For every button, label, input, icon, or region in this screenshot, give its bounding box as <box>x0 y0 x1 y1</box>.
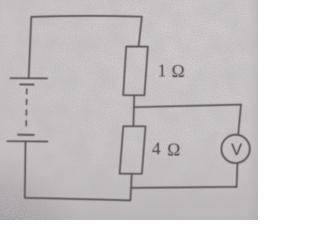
photo grain overlay <box>0 0 1 1</box>
wire: battery negative lead (left vertical, bottom) <box>24 142 27 198</box>
wire: bottom horizontal return to battery <box>25 198 131 201</box>
label: R1 value 1 ohm <box>158 61 185 82</box>
battery B1: bottom cell long plate (+) <box>7 140 47 142</box>
wire: battery positive lead (left vertical, top) <box>29 17 32 78</box>
wire: top horizontal from battery to R1 branch <box>31 16 142 17</box>
resistor R1 (1 ohm) box <box>123 47 148 96</box>
wire: R1 bottom to R2 top <box>132 95 135 126</box>
wire: R2 bottom lead down to bottom node <box>130 174 131 201</box>
battery B1: top cell long plate (+) <box>10 77 47 79</box>
wire: voltmeter bottom horizontal branch <box>132 187 237 188</box>
photo grain underlay <box>0 0 258 220</box>
resistor R2 (4 ohm) box <box>120 126 146 174</box>
wire: voltmeter top horizontal branch <box>134 105 241 108</box>
wire: voltmeter lower lead <box>236 163 239 187</box>
battery B1: bottom cell short plate (-) <box>18 134 34 136</box>
wire: from top wire down into resistor R1 <box>139 17 142 47</box>
voltmeter V1: circle body <box>221 135 249 163</box>
label: R2 value 4 ohm <box>152 139 180 160</box>
battery B1: top cell short plate (-) <box>20 83 33 85</box>
wire: voltmeter upper lead (right vertical) <box>238 105 241 135</box>
battery B1: dashed link between cells <box>25 89 28 131</box>
